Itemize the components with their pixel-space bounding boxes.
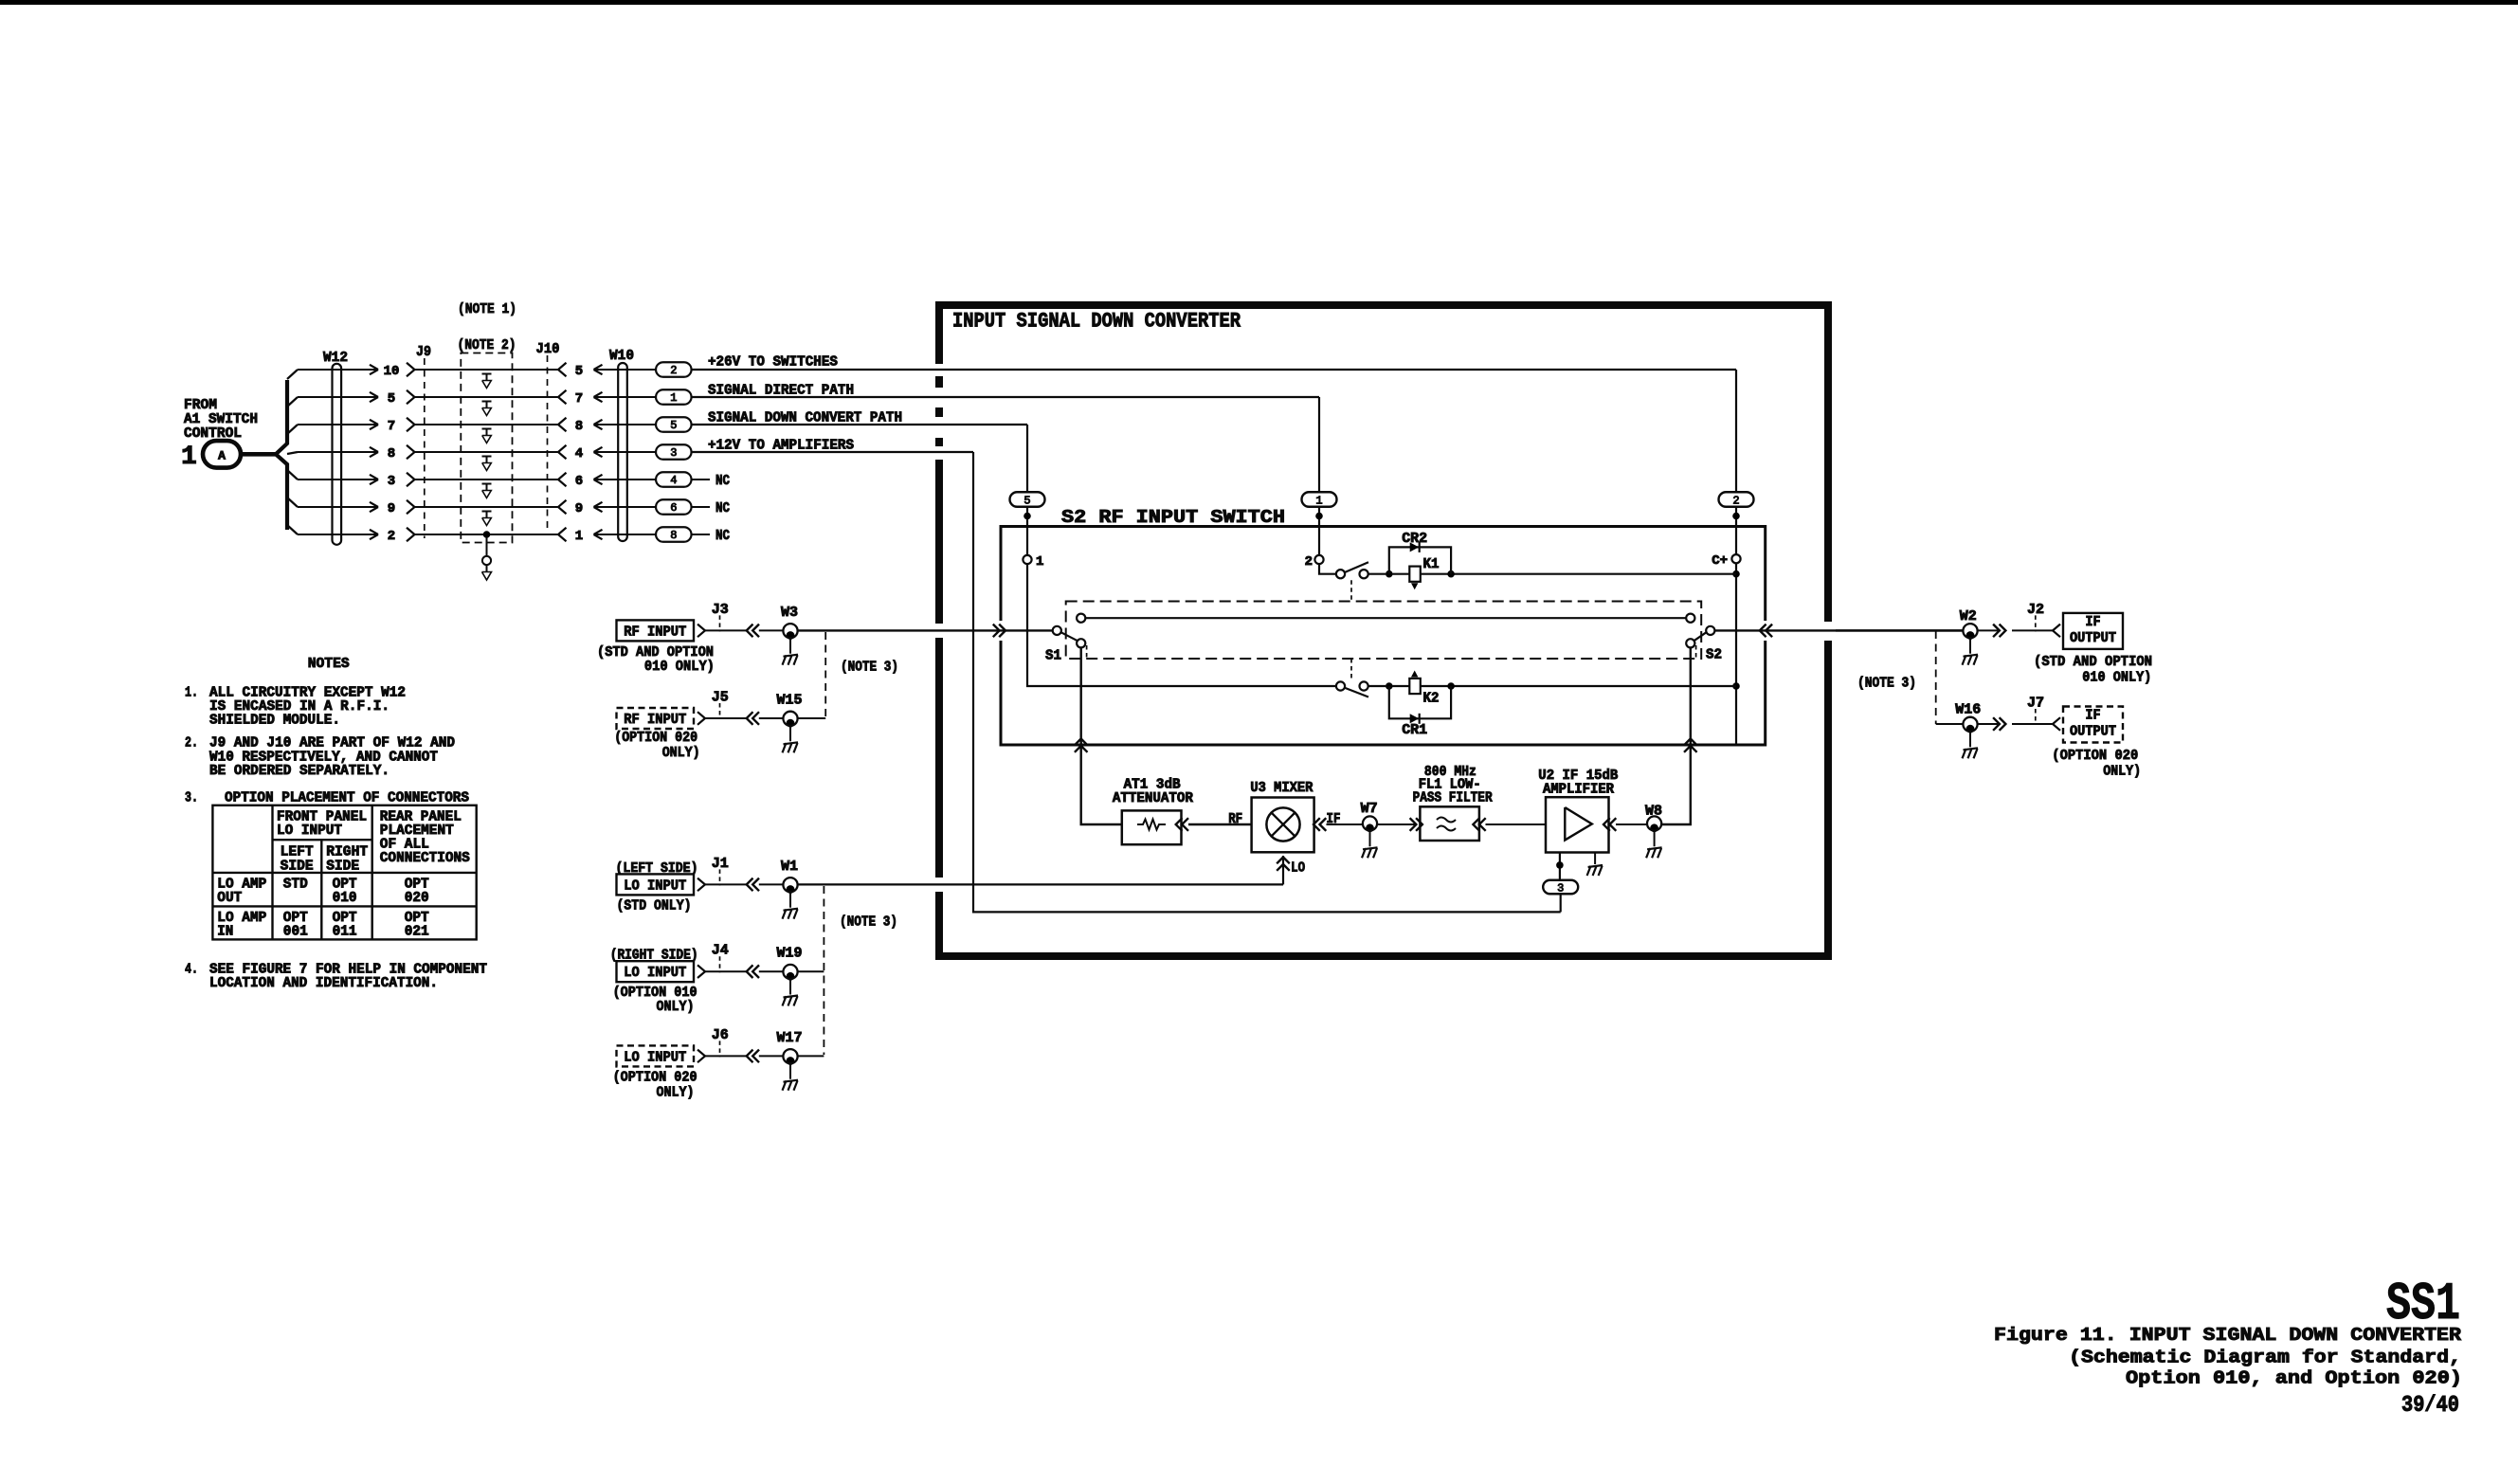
svg-text:4.: 4. <box>185 962 198 978</box>
svg-text:9: 9 <box>388 501 395 516</box>
svg-text:(NOTE 3): (NOTE 3) <box>841 660 898 676</box>
svg-text:STD: STD <box>283 877 308 893</box>
svg-text:(Schematic Diagram for Standar: (Schematic Diagram for Standard, <box>2069 1348 2461 1368</box>
svg-text:Option 010, and Option 020): Option 010, and Option 020) <box>2126 1368 2462 1389</box>
svg-text:SHIELDED MODULE.: SHIELDED MODULE. <box>209 713 340 729</box>
svg-text:CR2: CR2 <box>1402 531 1427 547</box>
svg-text:2.: 2. <box>185 735 198 751</box>
svg-text:OPTION PLACEMENT OF CONNECTORS: OPTION PLACEMENT OF CONNECTORS <box>225 790 469 806</box>
svg-text:(OPTION 020: (OPTION 020 <box>614 730 697 746</box>
svg-text:PASS FILTER: PASS FILTER <box>1413 789 1493 805</box>
svg-text:CONNECTIONS: CONNECTIONS <box>380 850 470 866</box>
svg-text:4: 4 <box>575 446 583 461</box>
svg-text:3: 3 <box>1557 882 1564 896</box>
svg-text:S2 RF INPUT SWITCH: S2 RF INPUT SWITCH <box>1061 507 1285 528</box>
svg-text:2: 2 <box>670 364 677 377</box>
svg-text:J3: J3 <box>712 602 729 618</box>
svg-text:5: 5 <box>1024 495 1030 508</box>
svg-text:1.: 1. <box>185 685 198 701</box>
svg-text:W7: W7 <box>1361 801 1378 817</box>
svg-text:010 ONLY): 010 ONLY) <box>644 659 715 675</box>
svg-text:8: 8 <box>388 446 395 461</box>
svg-text:INPUT SIGNAL DOWN CONVERTER: INPUT SIGNAL DOWN CONVERTER <box>952 310 1241 334</box>
svg-text:3: 3 <box>388 474 395 489</box>
svg-text:010: 010 <box>333 890 357 906</box>
svg-text:021: 021 <box>405 924 429 940</box>
svg-text:020: 020 <box>405 890 429 906</box>
svg-text:W10: W10 <box>609 348 634 364</box>
svg-text:(NOTE 1): (NOTE 1) <box>458 301 516 317</box>
svg-text:(NOTE 3): (NOTE 3) <box>1857 676 1916 692</box>
svg-text:RF INPUT: RF INPUT <box>624 712 686 728</box>
svg-text:RF INPUT: RF INPUT <box>624 624 686 640</box>
svg-text:LO INPUT: LO INPUT <box>277 823 342 839</box>
svg-text:010 ONLY): 010 ONLY) <box>2082 670 2151 686</box>
svg-text:8: 8 <box>670 529 677 542</box>
svg-text:LO INPUT: LO INPUT <box>624 965 686 981</box>
svg-text:(OPTION 020: (OPTION 020 <box>2052 748 2138 764</box>
svg-text:SIGNAL DIRECT PATH: SIGNAL DIRECT PATH <box>708 383 854 399</box>
svg-text:OUTPUT: OUTPUT <box>2070 630 2116 646</box>
svg-text:W17: W17 <box>776 1030 802 1046</box>
svg-text:(NOTE 3): (NOTE 3) <box>840 914 897 931</box>
svg-text:W15: W15 <box>776 693 802 709</box>
svg-text:SIDE: SIDE <box>281 858 314 874</box>
svg-text:5: 5 <box>575 364 583 379</box>
svg-text:10: 10 <box>384 364 400 379</box>
svg-text:W19: W19 <box>776 946 802 962</box>
svg-text:5: 5 <box>388 391 395 407</box>
svg-text:S1: S1 <box>1045 648 1061 664</box>
svg-text:A: A <box>218 449 226 463</box>
svg-text:CR1: CR1 <box>1402 722 1427 738</box>
svg-text:4: 4 <box>670 474 677 487</box>
svg-text:BE ORDERED SEPARATELY.: BE ORDERED SEPARATELY. <box>209 763 389 779</box>
svg-text:3.: 3. <box>185 790 198 806</box>
svg-text:OUTPUT: OUTPUT <box>2070 724 2116 740</box>
svg-text:IF: IF <box>1327 811 1341 827</box>
svg-text:Figure 11. INPUT SIGNAL DOWN C: Figure 11. INPUT SIGNAL DOWN CONVERTER <box>1994 1325 2462 1346</box>
svg-text:J9: J9 <box>416 344 431 360</box>
svg-text:LO: LO <box>1291 860 1305 877</box>
svg-text:W16: W16 <box>1955 702 1981 718</box>
svg-text:J10: J10 <box>536 341 560 357</box>
svg-text:J1: J1 <box>712 856 729 872</box>
svg-text:IN: IN <box>217 924 233 940</box>
svg-text:S2: S2 <box>1706 647 1722 663</box>
svg-text:7: 7 <box>575 391 583 407</box>
svg-text:SIDE: SIDE <box>326 858 359 874</box>
svg-text:1: 1 <box>181 443 197 472</box>
svg-text:IF: IF <box>2086 708 2101 724</box>
svg-text:RF: RF <box>1228 811 1242 827</box>
svg-text:8: 8 <box>575 419 583 434</box>
svg-text:1: 1 <box>575 529 583 544</box>
svg-text:W1: W1 <box>781 859 798 875</box>
svg-text:LO INPUT: LO INPUT <box>624 1049 686 1065</box>
svg-text:J5: J5 <box>712 690 729 706</box>
svg-text:2: 2 <box>1305 554 1313 570</box>
svg-text:NOTES: NOTES <box>308 656 350 672</box>
svg-text:J7: J7 <box>2027 696 2044 712</box>
svg-text:ONLY): ONLY) <box>657 999 695 1015</box>
svg-text:SIGNAL DOWN CONVERT PATH: SIGNAL DOWN CONVERT PATH <box>708 410 902 426</box>
svg-text:K2: K2 <box>1423 691 1440 707</box>
svg-text:(STD AND OPTION: (STD AND OPTION <box>2034 654 2152 670</box>
svg-text:5: 5 <box>670 419 677 432</box>
svg-text:J6: J6 <box>712 1027 729 1043</box>
svg-text:39/40: 39/40 <box>2401 1393 2459 1419</box>
svg-text:ONLY): ONLY) <box>657 1085 695 1101</box>
svg-text:LO INPUT: LO INPUT <box>624 878 686 894</box>
svg-text:W12: W12 <box>323 350 348 366</box>
svg-text:6: 6 <box>575 474 583 489</box>
svg-text:ATTENUATOR: ATTENUATOR <box>1113 790 1193 806</box>
svg-text:NC: NC <box>716 500 730 516</box>
svg-text:AMPLIFIER: AMPLIFIER <box>1543 782 1614 798</box>
svg-text:+26V TO SWITCHES: +26V TO SWITCHES <box>708 354 838 371</box>
svg-text:W8: W8 <box>1645 804 1662 820</box>
svg-text:J2: J2 <box>2027 602 2044 618</box>
svg-text:NC: NC <box>716 473 730 489</box>
svg-text:011: 011 <box>333 924 357 940</box>
svg-text:1: 1 <box>1315 495 1322 508</box>
svg-text:NC: NC <box>716 528 730 544</box>
svg-text:2: 2 <box>1732 495 1739 508</box>
svg-text:C+: C+ <box>1712 553 1728 569</box>
svg-text:W3: W3 <box>781 605 798 621</box>
svg-text:2: 2 <box>388 529 395 544</box>
svg-text:J4: J4 <box>712 943 729 959</box>
svg-text:001: 001 <box>283 924 308 940</box>
svg-text:ONLY): ONLY) <box>662 745 700 761</box>
svg-text:OUT: OUT <box>217 890 242 906</box>
svg-text:+12V TO AMPLIFIERS: +12V TO AMPLIFIERS <box>708 438 854 454</box>
svg-text:7: 7 <box>388 419 395 434</box>
svg-text:9: 9 <box>575 501 583 516</box>
svg-text:LOCATION AND IDENTIFICATION.: LOCATION AND IDENTIFICATION. <box>209 975 438 991</box>
svg-text:6: 6 <box>670 501 677 515</box>
svg-text:U3 MIXER: U3 MIXER <box>1250 780 1313 796</box>
svg-text:(NOTE 2): (NOTE 2) <box>458 337 516 353</box>
svg-text:(STD ONLY): (STD ONLY) <box>617 898 692 914</box>
svg-text:3: 3 <box>670 446 677 460</box>
svg-text:1: 1 <box>1036 554 1043 570</box>
svg-text:(OPTION 020: (OPTION 020 <box>613 1070 697 1086</box>
svg-text:ONLY): ONLY) <box>2103 764 2141 780</box>
svg-text:W2: W2 <box>1960 608 1977 624</box>
svg-text:IF: IF <box>2086 614 2101 630</box>
svg-text:K1: K1 <box>1423 556 1440 572</box>
svg-text:1: 1 <box>670 391 677 405</box>
